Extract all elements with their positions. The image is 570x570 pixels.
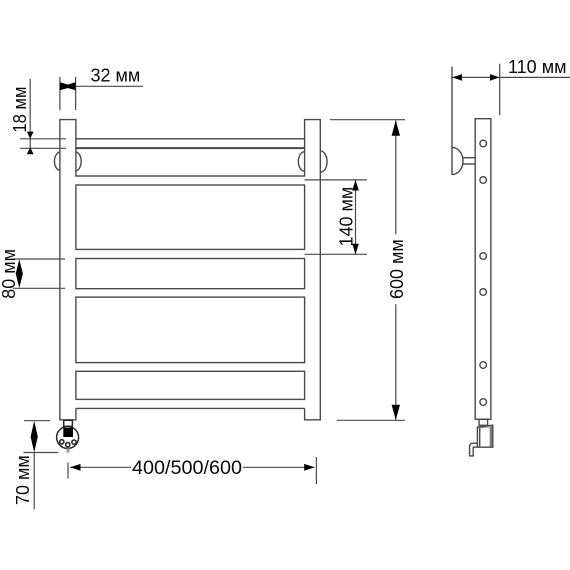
hole 1 <box>480 140 487 147</box>
400 dim line left segment <box>70 466 131 468</box>
flange stem top <box>463 157 476 159</box>
bottom crossbar top line <box>76 407 305 409</box>
hole 4 <box>480 289 487 296</box>
400 arrow left <box>70 464 80 471</box>
70mm dim line lower <box>33 453 35 510</box>
hole 6 <box>480 399 487 406</box>
600mm extension line bottom <box>337 419 405 421</box>
18mm extension line top <box>20 138 66 140</box>
140mm extension line bottom <box>305 253 367 255</box>
110mm arrow left <box>452 74 462 81</box>
400 tick right <box>315 457 317 484</box>
18mm extension line bottom <box>20 147 66 149</box>
110mm arrow right <box>490 74 499 81</box>
heater body circle <box>57 426 79 448</box>
70mm extension line top <box>24 420 50 422</box>
rung 5 <box>76 371 305 399</box>
flange stem bottom <box>463 163 476 165</box>
32mm bow-tie arrows <box>60 82 71 90</box>
side bar <box>475 119 491 420</box>
110mm dim line <box>452 76 570 78</box>
wall line <box>451 67 453 176</box>
svg-text:110 мм: 110 мм <box>508 57 566 77</box>
18mm dim line vertical <box>29 79 31 152</box>
dimension 400/500/600 <box>68 457 316 484</box>
svg-text:80 мм: 80 мм <box>0 249 19 299</box>
heater dot middle <box>66 443 70 447</box>
collector tube <box>76 148 305 176</box>
80mm extension line top <box>13 258 65 260</box>
600mm dim line lower <box>395 304 397 419</box>
600mm dim line upper <box>395 121 397 235</box>
400 arrow right <box>304 464 314 471</box>
svg-text:32 мм: 32 мм <box>91 66 141 86</box>
hole 3 <box>480 253 487 260</box>
400 tick left <box>67 463 69 479</box>
side element inner line <box>479 428 481 447</box>
cable hook <box>470 443 478 456</box>
rung 2 <box>76 185 305 249</box>
wall flange dome <box>452 147 463 174</box>
heating element (front view, below left post) <box>57 420 79 452</box>
side view <box>452 67 493 456</box>
32mm extension line right <box>75 77 77 110</box>
600mm extension line top <box>330 119 405 121</box>
svg-text:18 мм: 18 мм <box>10 87 30 133</box>
600mm arrow down <box>392 405 400 420</box>
side element neck <box>479 419 488 425</box>
dimension 600 mm <box>330 120 405 421</box>
hole 2 <box>480 177 487 184</box>
heater dot left <box>60 440 64 444</box>
80mm diamond arrow <box>16 259 23 288</box>
dimension 70 mm <box>24 421 59 510</box>
140mm extension line top <box>305 179 367 181</box>
32mm dimension line <box>76 85 143 87</box>
svg-text:140 мм: 140 мм <box>337 187 357 247</box>
right wall bracket <box>320 151 327 172</box>
side element top gray band <box>477 425 492 429</box>
heater black block <box>63 428 73 437</box>
svg-text:70 мм: 70 мм <box>13 455 33 505</box>
right post <box>305 120 321 420</box>
svg-text:600 мм: 600 мм <box>387 239 407 299</box>
400 dim line right segment <box>243 466 315 468</box>
dimension 18 mm <box>20 79 66 152</box>
32mm extension line left <box>59 77 61 110</box>
dimension 110 mm <box>452 64 570 116</box>
side element gray strip <box>490 425 493 447</box>
rung 3 <box>76 259 305 289</box>
heater pin <box>67 448 70 452</box>
140mm arrow up <box>352 180 359 191</box>
80mm extension line bottom <box>13 287 65 289</box>
18mm arrow bottom <box>27 147 34 154</box>
70mm extension line bottom <box>24 452 59 454</box>
dimension 80 mm <box>13 259 65 288</box>
heater neck <box>64 420 73 426</box>
side element housing <box>477 425 492 447</box>
left wall bracket <box>54 152 59 171</box>
140mm arrow down <box>352 244 359 255</box>
heater dot right <box>72 440 76 444</box>
140mm dim line <box>355 180 357 254</box>
top crossbar tube <box>76 139 305 148</box>
600mm arrow up <box>392 120 400 136</box>
left post <box>60 120 76 420</box>
18mm arrow top <box>27 132 34 139</box>
rung 4 <box>76 297 305 363</box>
hole 5 <box>480 362 487 369</box>
110mm extension line right <box>499 64 501 116</box>
collector right end arc <box>298 152 304 172</box>
svg-text:400/500/600: 400/500/600 <box>132 457 242 479</box>
dimension 140 mm <box>305 180 367 254</box>
dimension 32 mm <box>60 77 143 110</box>
70mm diamond arrow <box>31 421 38 452</box>
collector left end arc <box>76 152 81 171</box>
